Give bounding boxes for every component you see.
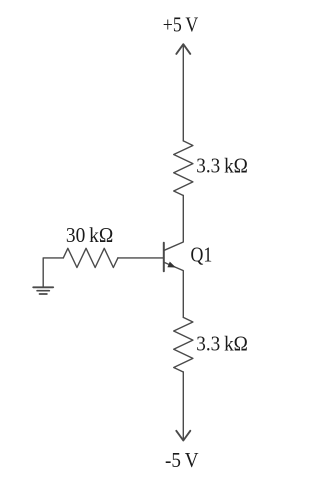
svg-text:3.3 kΩ: 3.3 kΩ <box>196 331 248 355</box>
svg-text:Q1: Q1 <box>191 243 213 267</box>
svg-text:3.3 kΩ: 3.3 kΩ <box>196 153 248 177</box>
svg-text:+5 V: +5 V <box>163 12 198 36</box>
svg-text:-5 V: -5 V <box>165 448 199 472</box>
svg-text:30 kΩ: 30 kΩ <box>66 223 113 247</box>
